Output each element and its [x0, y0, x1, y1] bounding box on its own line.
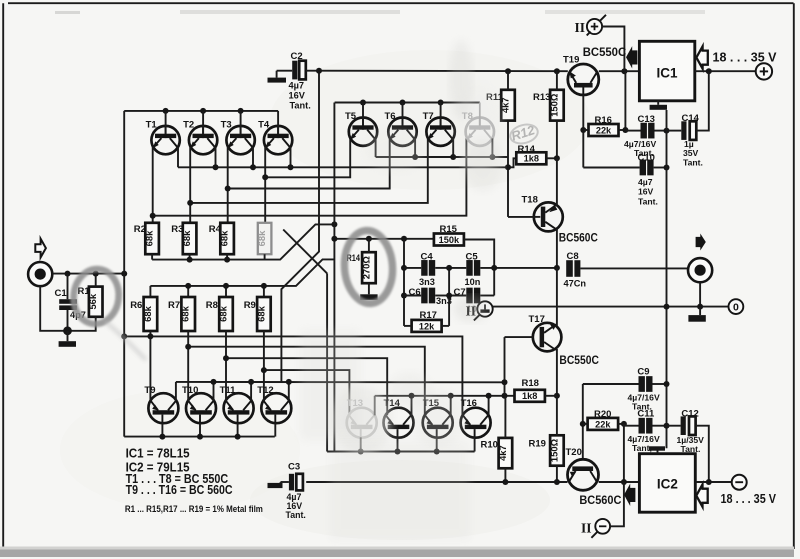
wire emitter tie T12-T13	[264, 370, 350, 415]
resistor R16 22k	[589, 115, 619, 136]
power terminal + 18-35V	[713, 51, 778, 80]
pen circle around R1 (scan annotation)	[71, 267, 146, 360]
svg-text:R1: R1	[78, 286, 91, 297]
svg-text:R8: R8	[206, 300, 218, 311]
resistor R1 56k	[78, 286, 103, 317]
wire T17 collector lead	[556, 349, 558, 396]
svg-text:C9: C9	[637, 366, 649, 377]
resistor R11 4k7	[486, 90, 515, 121]
wire C14 leads	[667, 71, 709, 130]
wire C8 output lead	[580, 267, 688, 269]
wire C6 leads	[404, 295, 449, 297]
svg-text:R2: R2	[134, 224, 146, 235]
wire T2 emitter to R3	[189, 147, 191, 223]
resistor R14 270Ω	[347, 252, 376, 283]
capacitor C12 1u/35V (polarized)	[677, 409, 705, 454]
node C-block left dots	[401, 265, 407, 299]
svg-text:68k: 68k	[142, 305, 153, 321]
wire C1 leads	[67, 274, 69, 331]
wire supply drop from C2 node	[281, 71, 319, 382]
wire -supply line	[306, 481, 639, 483]
svg-text:T18: T18	[522, 195, 538, 206]
svg-text:T5: T5	[345, 111, 357, 122]
node emitter tie dots	[150, 174, 269, 218]
svg-text:R17: R17	[420, 310, 437, 321]
wire T17 base lead	[505, 337, 533, 396]
wire R2-R5 bottom feedback bus	[152, 224, 334, 259]
svg-text:BC560C: BC560C	[579, 493, 621, 507]
svg-text:BC560C: BC560C	[559, 232, 598, 244]
svg-text:270Ω: 270Ω	[360, 256, 371, 280]
transistor T13 BC560C	[347, 398, 377, 438]
resistor R8 68k	[206, 297, 233, 331]
ground terminal II (signal ground)	[466, 301, 493, 320]
wire input connector ground leg	[40, 286, 67, 331]
resistor R15 150k	[434, 224, 464, 245]
transistor T9 BC560C	[144, 385, 178, 423]
node R16 right dot	[622, 127, 628, 133]
svg-text:C10: C10	[638, 152, 655, 163]
wire R10 leads	[504, 396, 506, 482]
resistor R3 68k	[171, 223, 196, 254]
ground (input)	[59, 341, 76, 347]
arrow into IC1 (solid)	[626, 46, 637, 68]
svg-text:T1: T1	[146, 120, 158, 131]
svg-text:T19: T19	[563, 55, 579, 66]
wire R13 bottom to 1k8 node	[546, 121, 557, 159]
capacitor C10 4u7 16V	[638, 152, 658, 206]
node C-block middle dots	[446, 265, 497, 299]
svg-text:1k8: 1k8	[524, 154, 539, 164]
capacitor C4 3n3	[419, 251, 435, 287]
ground (R14)	[360, 294, 377, 300]
power terminal - 18-35V	[721, 475, 777, 506]
svg-text:T2: T2	[183, 120, 194, 131]
node R6-R9 bus dots	[185, 283, 267, 289]
wire emitter tie T10-T15	[188, 347, 425, 416]
wire R13 top lead	[556, 71, 558, 90]
svg-text:R4: R4	[209, 224, 222, 235]
transistor T16 BC560C	[461, 398, 491, 438]
svg-text:IC2: IC2	[657, 477, 678, 492]
svg-text:68k: 68k	[180, 305, 191, 321]
wire R11 top lead	[507, 71, 509, 90]
node base rail dots	[163, 108, 244, 114]
scan streaks top edge	[55, 10, 705, 14]
transistor T20 BC560C	[566, 447, 622, 507]
capacitor C3 4u7 tantalum	[286, 461, 306, 520]
wire C13 leads	[625, 130, 666, 132]
resistor R10 4k7	[481, 438, 513, 468]
capacitor C13 4u7/16V	[624, 114, 656, 158]
scan smudge over T13/T15 region	[332, 372, 464, 454]
svg-text:R7: R7	[168, 300, 180, 311]
wire T20 base / R20 node	[582, 384, 584, 460]
wire feedback vertical (bases of T5-T8 / T13-T16)	[333, 103, 335, 452]
svg-text:T16: T16	[461, 398, 477, 409]
wire IC1 output to +supply terminal	[695, 70, 756, 72]
svg-text:R3: R3	[171, 224, 183, 235]
transistor T5 BC550C	[345, 111, 377, 146]
capacitor C5 10n	[465, 251, 481, 287]
wire T13-T16 collector stubs to R18 rail	[375, 396, 515, 416]
wire 0V line	[493, 306, 729, 308]
resistor R18 1k8	[515, 378, 545, 402]
power terminal II+ (15V rail marker)	[575, 15, 607, 36]
node 1k8 right dot	[554, 155, 560, 161]
wire R11 column to T18 base	[508, 90, 516, 217]
resistor R4 68k	[209, 223, 234, 254]
node R20 right dot	[621, 421, 627, 427]
svg-text:150k: 150k	[439, 235, 460, 245]
svg-text:10n: 10n	[465, 277, 481, 287]
capacitor C6 3n3	[409, 287, 452, 306]
ground (IC2)	[649, 446, 665, 453]
node T5-T8 base rail dots	[360, 100, 444, 106]
output connector J2	[688, 258, 712, 282]
capacitor C14 1u 35V (polarized)	[681, 113, 703, 167]
wire C12 leads	[667, 426, 709, 482]
svg-text:4µ7: 4µ7	[638, 177, 653, 187]
wire T1-T4 collector bus	[178, 147, 508, 168]
svg-text:R20: R20	[594, 409, 611, 420]
wire R17 leads	[404, 325, 449, 327]
node +15V rail dots	[316, 68, 627, 75]
transistor T2 BC550C	[183, 120, 217, 155]
arrow into IC2 right (hollow)	[696, 484, 707, 506]
wire ground stub	[67, 331, 69, 341]
svg-text:22k: 22k	[595, 419, 611, 429]
wire C5 leads / output coupling line	[449, 267, 557, 269]
svg-text:C4: C4	[421, 251, 434, 262]
arrow into IC1 right (hollow)	[696, 46, 707, 68]
transistor T6 BC550C	[385, 111, 417, 146]
svg-text:T3: T3	[221, 120, 232, 131]
svg-text:4k7: 4k7	[497, 445, 508, 461]
ic IC2 79L15	[639, 454, 695, 513]
svg-text:Tant.: Tant.	[683, 158, 703, 168]
wire IC2 output to -supply terminal	[695, 481, 731, 483]
node T9-T12 collector bus dots	[211, 379, 292, 385]
wire cross link upper	[283, 230, 327, 452]
svg-text:T17: T17	[529, 314, 545, 325]
wire C7 leads	[449, 295, 494, 297]
svg-text:18 . . . 35 V: 18 . . . 35 V	[721, 492, 777, 506]
resistor R20 22k	[588, 409, 619, 430]
svg-text:R1 ... R15,R17 ... R19 = 1% Me: R1 ... R15,R17 ... R19 = 1% Metal film	[125, 504, 263, 514]
svg-text:T6: T6	[385, 111, 396, 122]
transistor T11 BC560C	[220, 385, 254, 423]
transistor T17 BC550C	[529, 314, 599, 367]
svg-text:Tant,: Tant,	[632, 443, 652, 453]
svg-text:C8: C8	[567, 251, 579, 262]
wire R9/T12 emitter column	[263, 331, 265, 401]
ground (C3)	[268, 482, 289, 488]
svg-text:C11: C11	[637, 409, 655, 420]
node C12 bottom dot	[706, 479, 712, 485]
node R20 left dot	[580, 421, 586, 427]
wire R19 leads	[556, 396, 558, 482]
wire T7 base lead	[440, 103, 442, 126]
wire T5-T8 collector bus	[376, 138, 508, 157]
svg-text:35V: 35V	[683, 148, 699, 158]
wire ground rail (0V vertical)	[666, 110, 668, 448]
transistor T8 BC550C	[462, 111, 494, 146]
svg-text:C2: C2	[291, 51, 303, 62]
svg-text:Tant.: Tant.	[286, 510, 306, 520]
svg-text:R6: R6	[130, 300, 142, 311]
transistor T19 BC550C	[563, 47, 626, 95]
resistor R13 150Ω	[533, 90, 564, 121]
svg-text:T7: T7	[423, 111, 434, 122]
wire R20 leads	[583, 423, 624, 425]
transistor T10 BC560C	[182, 385, 216, 423]
svg-text:R13: R13	[533, 92, 550, 103]
svg-text:C12: C12	[681, 409, 698, 420]
svg-text:68k: 68k	[218, 305, 229, 321]
wire base rail T1-T4 (input rail)	[124, 111, 278, 274]
node T18 base node dot	[505, 164, 511, 170]
transistor T1 BC550C	[146, 120, 180, 155]
wire R8/T11 emitter column	[225, 331, 227, 401]
node R16 left dot	[580, 127, 586, 133]
wire T1 base lead	[165, 111, 167, 134]
wire input vertical to bottom bases	[123, 274, 125, 437]
wire T18 emitter lead	[556, 158, 558, 205]
wire T4 emitter to R5	[264, 147, 266, 223]
svg-text:C1: C1	[55, 288, 68, 299]
node feedback rail dots	[331, 236, 407, 242]
wire output ground leg	[699, 282, 701, 306]
pen circle around R14 (scan annotation)	[342, 229, 395, 305]
scan smudge over T8 region	[449, 40, 503, 191]
wire emitter tie T4-T5	[265, 138, 350, 177]
transistor T7 BC550C	[423, 111, 455, 146]
wire C10 leads	[583, 167, 666, 169]
output arrow (solid)	[696, 234, 706, 251]
transistor T3 BC550C	[221, 120, 255, 155]
resistor R9 68k	[244, 297, 271, 331]
wire T18 base lead	[508, 216, 534, 218]
wire emitter tie T3-T6	[228, 138, 390, 188]
wire R6/T9 emitter column	[149, 331, 151, 401]
capacitor C2 4u7 tantalum	[289, 51, 311, 111]
svg-text:C5: C5	[466, 251, 479, 262]
capacitor C8 470n	[564, 251, 587, 288]
svg-text:12k: 12k	[419, 321, 435, 331]
wire R6-R9 top bus	[150, 259, 334, 297]
scan smudge column centre	[300, 128, 488, 540]
node T5-T8 collector bus dots	[412, 154, 495, 160]
wire emitter tie T9-T16	[124, 336, 462, 415]
node R18 rail dots	[409, 393, 508, 399]
svg-text:T9 . . . T16 = BC 560C: T9 . . . T16 = BC 560C	[126, 482, 233, 497]
node feedback bus dots	[187, 221, 338, 262]
svg-text:47Cn: 47Cn	[564, 279, 587, 289]
node T17 collector dot	[554, 393, 560, 399]
wire +15V rail	[306, 70, 640, 73]
wire C-block left vertical	[403, 239, 405, 326]
svg-text:T12: T12	[257, 385, 273, 396]
transistor T4 BC550C	[258, 120, 292, 155]
node C8 junction dot	[554, 265, 560, 271]
svg-text:18 . . . 35 V: 18 . . . 35 V	[713, 51, 778, 65]
wire II- to -line	[610, 482, 624, 526]
transistor T15 BC560C	[423, 398, 453, 438]
wire R15 right lead to C5/C7 node	[464, 240, 494, 296]
svg-text:T4: T4	[258, 120, 270, 131]
svg-text:150Ω: 150Ω	[548, 438, 559, 462]
node C11 right dot	[664, 423, 670, 429]
node C14 top dot	[706, 68, 712, 74]
svg-text:C14: C14	[682, 113, 700, 124]
svg-text:T11: T11	[220, 385, 237, 396]
ground (C2)	[277, 71, 293, 78]
svg-text:R10: R10	[481, 440, 498, 451]
svg-text:R16: R16	[595, 115, 612, 126]
wire emitter tie T11-T14	[226, 358, 387, 415]
svg-text:22k: 22k	[596, 125, 612, 135]
svg-text:IC1: IC1	[656, 66, 678, 81]
svg-text:C3: C3	[288, 461, 300, 472]
wire T8 base lead	[479, 103, 481, 126]
wire C4 leads	[404, 267, 449, 269]
resistor R7 68k	[168, 297, 195, 331]
svg-text:16V: 16V	[638, 187, 654, 197]
svg-text:R14: R14	[518, 144, 536, 155]
power terminal II- (negative rail marker)	[581, 519, 610, 538]
handwritten pencil note R12	[508, 122, 540, 147]
wire C9 leads	[583, 383, 667, 385]
input connector J1	[28, 262, 52, 286]
legend text block	[125, 446, 263, 514]
resistor R5 68k	[256, 223, 271, 254]
resistor R19 150Ω	[529, 435, 564, 465]
node T13-T16 base bus dots	[358, 449, 440, 455]
wire R14 leads	[368, 239, 370, 294]
terminal 0V	[729, 299, 744, 314]
svg-text:68k: 68k	[256, 230, 267, 246]
svg-text:3n3: 3n3	[419, 277, 435, 287]
wire T1 emitter to R2	[152, 147, 154, 223]
wire T4 base lead	[277, 111, 279, 134]
svg-text:Tant.: Tant.	[638, 197, 658, 207]
svg-text:R19: R19	[529, 439, 546, 450]
ground (output)	[688, 307, 705, 322]
node C9 right dot	[664, 381, 670, 387]
wire R1 leads	[68, 274, 96, 331]
wire T3 base lead	[240, 111, 242, 134]
wire T2 base lead	[202, 111, 204, 134]
capacitor C11 4u7/16V	[628, 409, 660, 453]
svg-text:R15: R15	[440, 224, 458, 235]
svg-text:II: II	[581, 521, 592, 536]
capacitor C7 10n	[454, 287, 481, 304]
node T9-T12 base bus dots	[159, 434, 240, 440]
ic IC1 78L15	[639, 41, 694, 101]
svg-text:4µ7: 4µ7	[289, 81, 305, 91]
svg-text:16V: 16V	[289, 91, 306, 101]
wire T18 collector to C8 node	[556, 229, 558, 268]
wire T6 base lead	[402, 103, 404, 126]
wire II+ to rail	[602, 27, 624, 72]
node 0V dots	[664, 304, 704, 310]
node T17 base dot	[502, 379, 508, 385]
svg-text:R18: R18	[522, 378, 539, 389]
wire emitter tie T2-T7	[190, 138, 428, 203]
wire C-block middle vertical	[448, 268, 450, 326]
input arrow symbol	[35, 239, 46, 258]
resistor R14b 1k8	[516, 144, 546, 164]
svg-text:1k8: 1k8	[522, 391, 537, 401]
ground (IC1)	[650, 101, 667, 110]
wire feedback rail to R14 R15	[334, 238, 434, 240]
svg-text:68k: 68k	[255, 305, 266, 321]
svg-text:II: II	[575, 20, 586, 35]
svg-text:BC550C: BC550C	[583, 47, 627, 59]
wire T5 base lead	[362, 103, 364, 126]
node ground rail top dot	[664, 128, 670, 134]
wire T3 emitter to R4	[227, 147, 229, 223]
node ground junction	[63, 326, 72, 335]
wire base rail T5-T8	[335, 102, 480, 104]
arrow into IC2 (solid)	[624, 484, 635, 506]
node collector bus dots	[213, 164, 294, 170]
node -supply dots	[502, 479, 627, 485]
wire R18 right lead	[545, 395, 557, 397]
transistor T12 BC560C	[257, 385, 291, 423]
transistor T18 BC560C	[522, 195, 598, 245]
wire T19 base / R16 node	[582, 95, 584, 168]
capacitor C1 4p7	[55, 288, 86, 320]
svg-text:BC550C: BC550C	[559, 355, 599, 367]
wire T9-T12 base bus	[124, 423, 275, 436]
wire R20 column down to -supply line	[623, 424, 625, 482]
node bottom emitter tie dots	[121, 333, 267, 373]
svg-text:Tant.: Tant.	[290, 101, 311, 111]
node C10 right dot	[664, 165, 670, 171]
resistor R17 12k	[412, 310, 442, 332]
wire R7/T10 emitter column	[187, 331, 189, 401]
wire input node	[52, 273, 124, 275]
wire R16 leads	[583, 71, 625, 130]
capacitor C9 4u7/16V	[628, 366, 660, 411]
wire emitter tie T1-T8	[153, 138, 467, 216]
wire C11 leads	[624, 425, 667, 427]
resistor R2 68k	[134, 223, 159, 254]
transistor T14 BC560C	[384, 398, 414, 438]
node input junction dots	[65, 271, 128, 277]
svg-text:T20: T20	[566, 447, 582, 458]
wire T13-T16 base bus	[327, 437, 475, 451]
wire T17 emitter lead	[556, 268, 558, 326]
resistor R6 68k	[130, 297, 157, 331]
wire T9-T12 collector bus	[176, 382, 505, 401]
svg-text:0: 0	[733, 302, 739, 314]
svg-text:IC1 = 78L15: IC1 = 78L15	[126, 446, 190, 461]
svg-text:C13: C13	[638, 114, 655, 125]
svg-text:R9: R9	[244, 300, 256, 311]
svg-text:T10: T10	[182, 385, 198, 396]
